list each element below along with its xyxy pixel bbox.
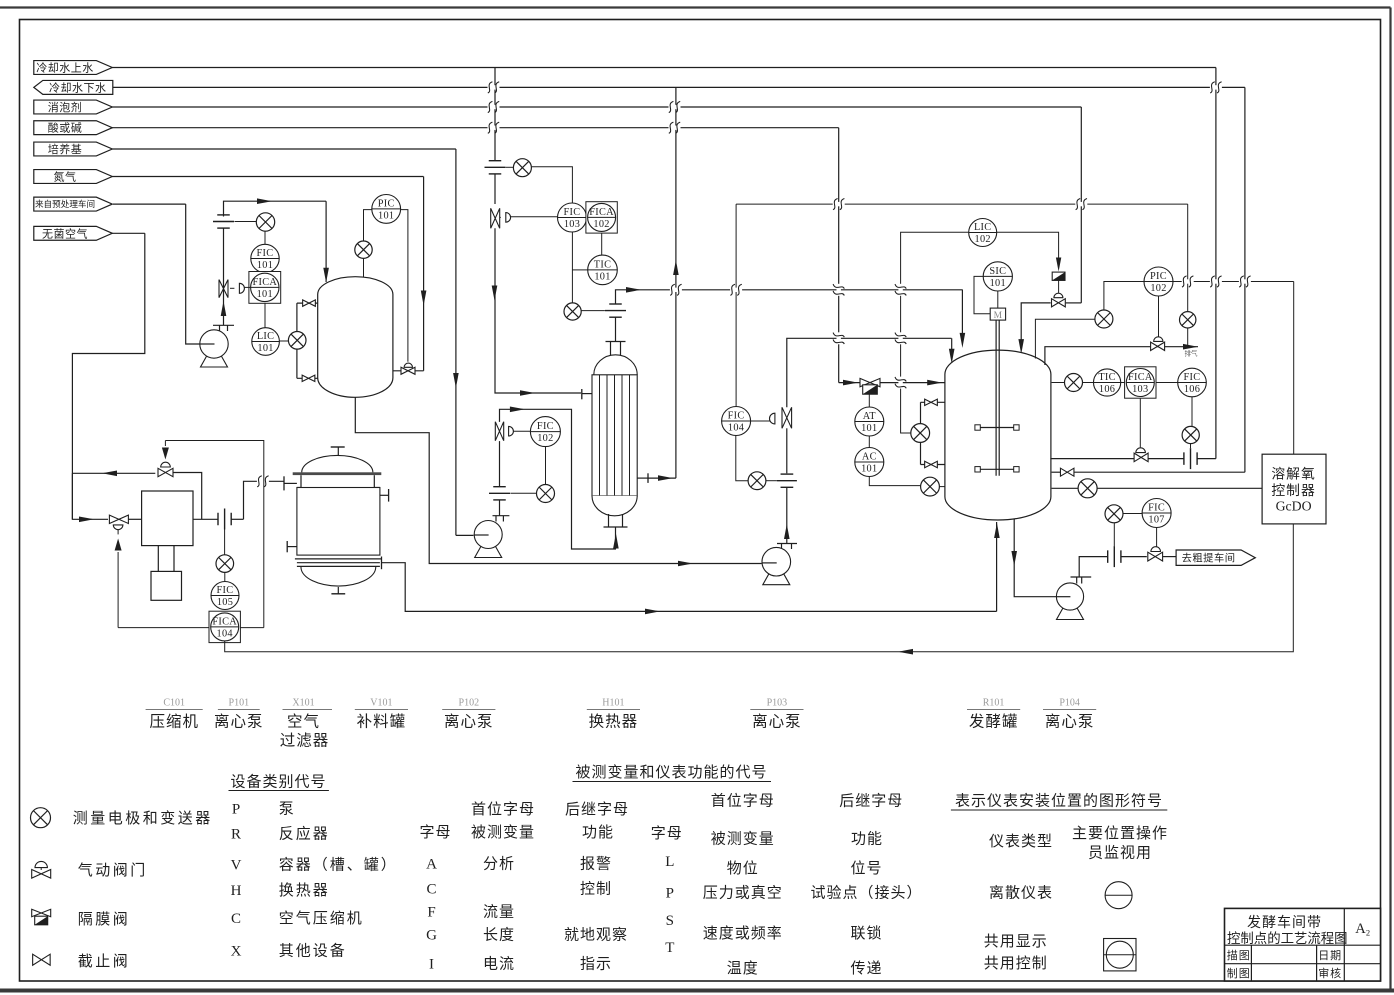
instrument FIC107 bbox=[1142, 499, 1171, 528]
actuator P102 valve bbox=[509, 426, 514, 436]
arrow medium top right bbox=[510, 407, 525, 413]
wire control signal top bbox=[165, 441, 263, 628]
wire sterilized medium up-right bbox=[616, 290, 963, 304]
svg-text:FIC: FIC bbox=[728, 410, 745, 421]
arrow HX return right bbox=[658, 475, 673, 481]
pump P101 bbox=[201, 355, 228, 368]
wire jacket return bbox=[1052, 471, 1061, 473]
wire P103 riser lower bbox=[786, 428, 788, 473]
pump P103 T-bar bbox=[777, 543, 797, 545]
svg-text:P101: P101 bbox=[229, 698, 250, 709]
svg-text:物位: 物位 bbox=[727, 860, 759, 877]
arrow HX bottom up bbox=[613, 534, 619, 549]
svg-text:FICA: FICA bbox=[1128, 372, 1153, 383]
svg-text:101: 101 bbox=[594, 272, 610, 283]
instrument FIC106 bbox=[1156, 382, 1177, 384]
svg-text:FIC: FIC bbox=[1184, 372, 1201, 383]
svg-text:位号: 位号 bbox=[850, 860, 882, 877]
wire DO probe line bbox=[1052, 487, 1079, 489]
transmitter DO probe bbox=[1078, 479, 1097, 498]
svg-text:P104: P104 bbox=[1059, 698, 1080, 709]
actuator cooling valve bbox=[506, 213, 511, 223]
svg-text:仪表类型: 仪表类型 bbox=[989, 833, 1053, 850]
svg-text:审核: 审核 bbox=[1318, 966, 1342, 980]
svg-text:表示仪表安装位置的图形符号: 表示仪表安装位置的图形符号 bbox=[955, 793, 1163, 810]
svg-text:FIC: FIC bbox=[564, 207, 581, 218]
valve compressor bypass bbox=[158, 468, 173, 476]
instrument FIC105 bbox=[224, 572, 226, 581]
svg-text:无菌空气: 无菌空气 bbox=[42, 226, 88, 240]
vessel H101 top dome bbox=[594, 355, 637, 375]
arrow LIC102 valve signal bbox=[1056, 258, 1061, 272]
vessel X101 bottom bands bbox=[295, 558, 382, 560]
arrow air suction bbox=[79, 517, 94, 523]
svg-text:溶解氧: 溶解氧 bbox=[1271, 467, 1315, 482]
wire sterile-air header y=233.3 bbox=[112, 232, 145, 234]
svg-text:101: 101 bbox=[257, 260, 273, 271]
arrow cooling down bbox=[492, 286, 498, 301]
transmitter cooling water flow bbox=[513, 159, 531, 177]
transmitter exhaust pressure B bbox=[1180, 312, 1196, 328]
svg-text:A: A bbox=[1355, 921, 1366, 937]
svg-text:来自预处理车间: 来自预处理车间 bbox=[35, 198, 95, 209]
actuator antifoam valve bbox=[1054, 293, 1063, 298]
transmitter HX outlet bbox=[564, 303, 581, 320]
flag 酸或碱 bbox=[34, 121, 113, 135]
vessel X101 lid handle bbox=[337, 447, 339, 455]
vessel H101 tubes bbox=[599, 375, 601, 496]
instrument TIC101 bbox=[588, 255, 618, 285]
agitator impeller upper bbox=[980, 427, 1017, 429]
svg-text:102: 102 bbox=[537, 433, 553, 444]
wire HX return riser bbox=[675, 87, 677, 478]
flag 无菌空气 bbox=[34, 226, 113, 240]
wire FIC104 to actuator bbox=[751, 420, 771, 422]
valve compressor suction bbox=[109, 515, 128, 523]
wire P104 to flag bbox=[1163, 556, 1176, 558]
nozzle H101 top bbox=[610, 342, 612, 356]
arrow bypass left bbox=[102, 471, 117, 477]
actuator suction valve below bbox=[113, 525, 123, 530]
nozzle X101 left lower bbox=[286, 541, 288, 552]
svg-text:PIC: PIC bbox=[1150, 271, 1167, 282]
svg-text:101: 101 bbox=[257, 343, 273, 354]
wire cooling water supply header y=67.5 bbox=[112, 67, 1216, 69]
wire FICA103 to cooling valve bbox=[1139, 399, 1141, 448]
valve P102 discharge bbox=[495, 422, 503, 441]
svg-text:流量: 流量 bbox=[483, 904, 515, 921]
svg-text:控制: 控制 bbox=[580, 881, 612, 898]
instrument SIC101 bbox=[983, 262, 1012, 291]
wire LIC102 valve stem bbox=[1058, 280, 1060, 293]
wire V101 inlet drop bbox=[325, 201, 327, 282]
svg-text:截止阀: 截止阀 bbox=[78, 953, 131, 970]
svg-text:指示: 指示 bbox=[580, 956, 612, 973]
arrow harvest down bbox=[1011, 551, 1017, 566]
svg-text:离心泵: 离心泵 bbox=[752, 713, 802, 731]
vessel X101 dome lid bbox=[302, 455, 373, 472]
flag 培养基 bbox=[34, 142, 113, 156]
svg-text:换热器: 换热器 bbox=[279, 882, 330, 899]
wire compressor bypass bbox=[72, 472, 155, 474]
svg-text:P102: P102 bbox=[459, 698, 480, 709]
svg-text:离心泵: 离心泵 bbox=[1045, 713, 1095, 731]
vessel R101 fermenter bbox=[945, 350, 1051, 520]
wire SIC101 to motor bbox=[974, 276, 990, 313]
svg-text:P: P bbox=[666, 886, 674, 902]
wire AC101 to probe bbox=[869, 477, 920, 486]
flag 消泡剂 bbox=[34, 100, 113, 114]
wire sparger riser bbox=[996, 522, 998, 611]
wire bypass right segment bbox=[173, 473, 202, 520]
svg-text:GcDO: GcDO bbox=[1276, 499, 1312, 514]
orifice compressor outlet bbox=[217, 513, 219, 526]
svg-text:联锁: 联锁 bbox=[850, 925, 882, 942]
svg-text:容器（槽、罐）: 容器（槽、罐） bbox=[279, 856, 398, 873]
svg-text:A: A bbox=[426, 857, 437, 873]
svg-text:S: S bbox=[666, 913, 674, 929]
motor M fermenter bbox=[990, 308, 1005, 320]
svg-text:试验点（接头）: 试验点（接头） bbox=[810, 885, 922, 902]
pump P104 bbox=[1057, 607, 1084, 620]
svg-text:电流: 电流 bbox=[483, 956, 515, 973]
svg-text:发酵罐: 发酵罐 bbox=[969, 713, 1019, 731]
pump P102 T-bar bbox=[493, 515, 510, 517]
svg-text:AC: AC bbox=[862, 451, 877, 462]
instrument FICA103 bbox=[1121, 382, 1125, 384]
svg-text:LIC: LIC bbox=[974, 222, 992, 233]
actuator nitrogen PCV bbox=[404, 363, 412, 367]
nozzle X101 air outlet bbox=[381, 557, 383, 570]
wire cooling water return header y=87.4 bbox=[113, 86, 1245, 88]
svg-text:FICA: FICA bbox=[252, 277, 277, 288]
wire P101 discharge riser bbox=[223, 228, 225, 325]
svg-text:102: 102 bbox=[593, 219, 609, 230]
svg-text:被测变量和仪表功能的代号: 被测变量和仪表功能的代号 bbox=[575, 764, 767, 781]
actuator P103 valve bbox=[770, 413, 775, 424]
transmitter P104 flow bbox=[1105, 505, 1123, 523]
svg-text:首位字母: 首位字母 bbox=[711, 793, 775, 810]
wire outlet to filter bbox=[244, 481, 285, 519]
svg-text:过滤器: 过滤器 bbox=[280, 732, 330, 750]
svg-text:LIC: LIC bbox=[257, 331, 275, 342]
wire cooling water drop x495 bbox=[494, 68, 496, 161]
transmitter fermenter temp bbox=[1052, 382, 1065, 384]
instrument FIC102 bbox=[530, 417, 560, 447]
valve P104 discharge bbox=[1148, 552, 1163, 561]
svg-text:日期: 日期 bbox=[1318, 949, 1342, 962]
valve diaphragm LIC102 bbox=[1052, 272, 1065, 280]
svg-text:102: 102 bbox=[1150, 283, 1166, 294]
valve P103 discharge bbox=[782, 407, 792, 428]
svg-text:空气: 空气 bbox=[287, 713, 320, 731]
svg-text:FIC: FIC bbox=[537, 421, 554, 432]
arrow cooling into HX bbox=[520, 390, 535, 396]
nozzle X101 right upper bbox=[388, 489, 390, 502]
pump P103 bbox=[763, 572, 790, 585]
instrument FIC101 bbox=[264, 231, 266, 244]
arrow acid line1 bbox=[843, 380, 858, 386]
svg-text:R: R bbox=[231, 827, 241, 843]
svg-text:描图: 描图 bbox=[1227, 948, 1251, 962]
wire bypass vertical from left header bbox=[71, 473, 73, 519]
orifice P102 riser bbox=[493, 486, 506, 488]
arrow P101 discharge right bbox=[257, 198, 272, 204]
orifice P101 riser bbox=[217, 214, 230, 216]
svg-text:L: L bbox=[665, 854, 674, 870]
svg-text:其他设备: 其他设备 bbox=[279, 942, 347, 959]
vessel X101 neck bbox=[300, 475, 302, 487]
arrow acid line2 bbox=[927, 380, 942, 386]
arrow nitrogen down bbox=[421, 291, 427, 306]
svg-text:共用显示: 共用显示 bbox=[984, 933, 1048, 950]
instrument PIC102 bbox=[1144, 267, 1173, 296]
svg-text:氮气: 氮气 bbox=[54, 169, 77, 183]
transmitter P101 flow bbox=[256, 213, 274, 231]
vessel X101 bottom support bbox=[337, 587, 339, 594]
valve jacket return bbox=[1060, 468, 1074, 476]
wire FIC103 valve link bbox=[511, 216, 558, 218]
svg-text:103: 103 bbox=[564, 219, 580, 230]
instrument LIC102 bbox=[969, 219, 997, 247]
actuator cooling valve bbox=[1136, 448, 1146, 453]
wire cooling drop lower bbox=[495, 228, 535, 393]
wire P102 riser bbox=[499, 500, 501, 516]
svg-text:离心泵: 离心泵 bbox=[214, 713, 264, 731]
svg-text:离心泵: 离心泵 bbox=[444, 713, 494, 731]
instrument FICA102 bbox=[586, 202, 617, 233]
valve antifoam bbox=[1052, 299, 1066, 307]
title block bbox=[1225, 908, 1381, 981]
actuator exhaust valve bbox=[1154, 337, 1163, 342]
svg-text:消泡剂: 消泡剂 bbox=[48, 100, 83, 114]
instrument FICA104 bbox=[209, 611, 240, 642]
svg-text:后继字母: 后继字母 bbox=[565, 801, 629, 818]
svg-text:功能: 功能 bbox=[851, 830, 883, 847]
wire suction valve to compressor bbox=[128, 518, 141, 520]
svg-text:空气压缩机: 空气压缩机 bbox=[279, 910, 364, 927]
break outlet-filter line bbox=[257, 479, 269, 483]
svg-text:C: C bbox=[231, 911, 241, 927]
flag 氮气 bbox=[34, 170, 113, 184]
svg-text:TIC: TIC bbox=[1098, 372, 1116, 383]
transmitter fermenter pH probe bbox=[921, 477, 940, 496]
svg-text:X: X bbox=[231, 943, 242, 959]
wire LIC102 left bbox=[901, 232, 969, 433]
wire V101 level taps bbox=[296, 303, 298, 331]
wire FICA104 right link bbox=[239, 627, 264, 629]
nozzle X101 air inlet bbox=[283, 476, 285, 490]
svg-text:P: P bbox=[232, 802, 240, 818]
valve P101 discharge bbox=[219, 280, 228, 298]
orifice cooling line bbox=[1183, 452, 1185, 465]
svg-text:V: V bbox=[231, 857, 242, 873]
flag 冷却水上水 bbox=[34, 61, 113, 75]
svg-text:设备类别代号: 设备类别代号 bbox=[230, 774, 326, 791]
wire FICA104 output to suction actuator bbox=[117, 552, 119, 628]
wire P101 pump T-bar bbox=[213, 324, 234, 326]
wire P101 riser top to V101 bbox=[224, 201, 327, 216]
svg-text:温度: 温度 bbox=[727, 960, 759, 977]
compressor C101 body bbox=[142, 491, 193, 546]
wire nitrogen drop bbox=[423, 177, 425, 371]
svg-text:压力或真空: 压力或真空 bbox=[703, 884, 783, 902]
svg-text:隔膜阀: 隔膜阀 bbox=[78, 911, 131, 928]
svg-text:后继字母: 后继字母 bbox=[839, 793, 903, 810]
svg-text:P103: P103 bbox=[767, 698, 788, 709]
agitator shaft bbox=[995, 320, 997, 476]
svg-text:员监视用: 员监视用 bbox=[1088, 844, 1152, 861]
svg-text:传递: 传递 bbox=[850, 960, 882, 977]
svg-text:被测变量: 被测变量 bbox=[711, 830, 775, 847]
arrow to suction actuator bbox=[115, 539, 122, 551]
wire FICA102 to TIC101 bbox=[601, 233, 603, 255]
flag 去粗提车间 bbox=[1176, 550, 1255, 565]
svg-text:冷却水下水: 冷却水下水 bbox=[49, 81, 107, 94]
transmitter V101 pressure bbox=[355, 241, 372, 258]
vessel V101 feed tank bbox=[318, 277, 393, 398]
svg-text:速度或频率: 速度或频率 bbox=[703, 925, 783, 942]
actuator P104 valve bbox=[1151, 547, 1161, 552]
svg-text:制图: 制图 bbox=[1227, 967, 1251, 980]
svg-text:101: 101 bbox=[257, 289, 273, 300]
svg-text:R101: R101 bbox=[983, 698, 1005, 709]
svg-text:补料罐: 补料罐 bbox=[357, 713, 407, 731]
valve exhaust bbox=[1151, 342, 1165, 350]
valve V101 level tap lower bbox=[302, 375, 315, 381]
instrument AT101 bbox=[855, 407, 884, 436]
wire acid line to fermenter bbox=[839, 382, 945, 384]
svg-text:103: 103 bbox=[1132, 384, 1148, 395]
svg-text:共用控制: 共用控制 bbox=[984, 955, 1048, 972]
wire HX return bbox=[648, 477, 676, 479]
orifice P103 riser bbox=[781, 473, 794, 475]
wire AT-AC link bbox=[868, 436, 870, 448]
svg-text:控制点的工艺流程图: 控制点的工艺流程图 bbox=[1227, 931, 1348, 946]
wire medium drop bbox=[455, 149, 457, 535]
svg-text:气动阀门: 气动阀门 bbox=[78, 862, 148, 879]
svg-text:104: 104 bbox=[728, 423, 744, 434]
instrument PIC101 bbox=[372, 195, 401, 224]
arrow medium to fermenter bbox=[626, 287, 641, 293]
svg-text:SIC: SIC bbox=[989, 266, 1006, 277]
wire LIC102 right bbox=[997, 232, 1059, 258]
vessel H101 body bbox=[592, 375, 637, 496]
wire FIC107 to valve bbox=[1156, 528, 1158, 547]
svg-text:就地观察: 就地观察 bbox=[564, 926, 628, 944]
arrow air line bbox=[645, 609, 660, 615]
svg-text:控制器: 控制器 bbox=[1271, 483, 1315, 498]
wire PIC102 right signal bbox=[1173, 281, 1294, 283]
actuator P101 valve bbox=[239, 283, 244, 293]
transmitter cooling flow bbox=[1182, 426, 1199, 443]
instrument FIC103 bbox=[558, 203, 587, 232]
wire P104 line mid bbox=[1121, 556, 1147, 558]
wire medium header y=149 bbox=[112, 148, 456, 150]
arrow exhaust bbox=[1183, 344, 1198, 350]
break marks at line crossings bbox=[488, 85, 500, 89]
svg-text:去粗提车间: 去粗提车间 bbox=[1182, 551, 1236, 564]
svg-text:C101: C101 bbox=[163, 698, 185, 709]
wire antifoam drop bbox=[1080, 107, 1082, 303]
svg-text:测量电极和变送器: 测量电极和变送器 bbox=[73, 810, 213, 827]
wire pretreatment to pump P101 bbox=[186, 204, 200, 344]
svg-text:102: 102 bbox=[975, 234, 991, 245]
wire HX shell inlet stub bbox=[535, 392, 581, 394]
svg-text:TIC: TIC bbox=[594, 259, 612, 270]
box GcDO controller bbox=[1262, 454, 1326, 524]
svg-text:培养基: 培养基 bbox=[48, 142, 83, 156]
arrow antifoam dome entry bbox=[1018, 339, 1024, 354]
valve fermenter tap lower bbox=[925, 461, 938, 467]
svg-text:FIC: FIC bbox=[257, 248, 274, 259]
wire GcDO output bbox=[225, 524, 1294, 652]
wire nitrogen header y=176.5 bbox=[112, 176, 423, 178]
wire FIC104 riser bbox=[735, 204, 737, 407]
transmitter P102 flow bbox=[537, 485, 555, 503]
svg-text:分析: 分析 bbox=[483, 856, 515, 873]
wire acid drop bbox=[838, 128, 840, 383]
transmitter P103 flow bbox=[748, 472, 766, 490]
valve fermenter tap upper bbox=[925, 399, 938, 405]
wire FIC107 sensing bbox=[1123, 513, 1142, 515]
wire PIC102 left sensing bbox=[1104, 282, 1144, 311]
wire antifoam header y=107 bbox=[112, 106, 1081, 108]
orifice P104 line bbox=[1107, 550, 1109, 563]
wire HX top nozzle to sterilizer bbox=[615, 317, 617, 341]
svg-text:字母: 字母 bbox=[651, 825, 683, 842]
svg-text:排气: 排气 bbox=[1185, 349, 1199, 358]
wire FIC106 sensing bbox=[1191, 397, 1193, 427]
transmitter compressor flow bbox=[224, 530, 226, 555]
svg-text:压缩机: 压缩机 bbox=[149, 713, 199, 731]
wire signal header y204 bbox=[736, 203, 1188, 205]
flag 冷却水下水 bbox=[34, 80, 113, 94]
svg-text:X101: X101 bbox=[292, 698, 314, 709]
instrument FICA101 bbox=[249, 272, 281, 304]
svg-text:F: F bbox=[427, 905, 435, 921]
svg-text:FICA: FICA bbox=[212, 616, 237, 627]
arrow P101 riser up bbox=[221, 301, 227, 316]
wire acid-base header y=127.7 bbox=[112, 127, 839, 129]
wire PIC102 to exhaust valve bbox=[1158, 296, 1160, 337]
instrument LIC101 bbox=[252, 328, 280, 356]
wire medium into fermenter dome bbox=[961, 290, 963, 340]
wire cooling into jacket bbox=[1050, 458, 1134, 460]
valve cooling water bbox=[1134, 453, 1148, 462]
wire feed into fermenter dome bbox=[951, 338, 953, 352]
legend symbols bbox=[31, 808, 51, 828]
svg-text:101: 101 bbox=[861, 423, 877, 434]
svg-text:FICA: FICA bbox=[589, 207, 614, 218]
nozzle H101 right bbox=[647, 473, 649, 483]
pump P102 bbox=[475, 545, 502, 558]
wire signal drop x1187.7 bbox=[1187, 204, 1189, 311]
wire AT chain bbox=[868, 394, 870, 407]
svg-text:离散仪表: 离散仪表 bbox=[989, 885, 1053, 902]
actuator bypass valve bbox=[161, 462, 171, 467]
wire FICA101 to valve actuator bbox=[244, 286, 250, 288]
transmitter exhaust pressure A bbox=[1095, 310, 1113, 328]
svg-text:反应器: 反应器 bbox=[279, 825, 330, 843]
wire TIC101 left link bbox=[572, 269, 587, 271]
wire FICA101 to LIC101 bbox=[264, 303, 266, 328]
nozzle HX left bbox=[581, 389, 583, 399]
svg-text:功能: 功能 bbox=[582, 824, 614, 841]
svg-text:H: H bbox=[231, 883, 242, 899]
wire signal to GcDO bbox=[1293, 282, 1295, 455]
wire FIC102 to actuator bbox=[513, 430, 530, 432]
